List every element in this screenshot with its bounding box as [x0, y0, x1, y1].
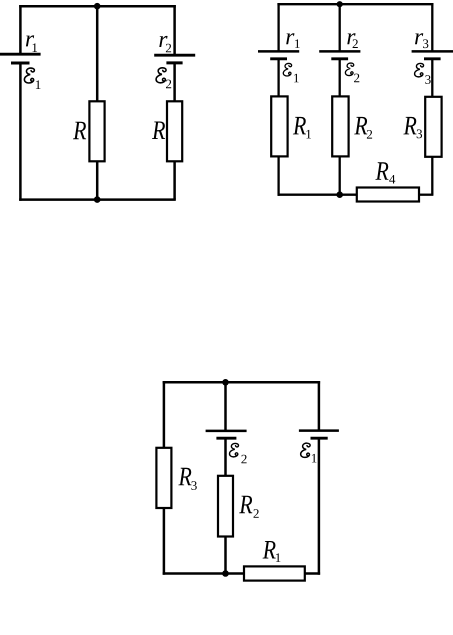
label r1 (circuit 1)	[26, 35, 37, 52]
label R1 (circuit 2)	[293, 117, 311, 139]
wire: circuit 3 bottom left horizontal	[163, 572, 244, 575]
wire: circuit 1 top horizontal	[19, 5, 176, 8]
label R1 (circuit 3)	[263, 541, 281, 562]
battery EMF3 short plate (circuit 2)	[424, 57, 441, 60]
battery EMF1 short plate (circuit 1)	[11, 62, 30, 65]
wire: circuit 1 middle branch lower segment	[96, 161, 99, 199]
wire: circuit 3 middle branch lower segment	[224, 537, 227, 574]
battery EMF1 long plate (circuit 1)	[0, 53, 41, 56]
wire: circuit 3 bottom right horizontal	[305, 572, 320, 575]
battery EMF2 long plate (circuit 2)	[319, 50, 360, 53]
node: circuit 3 top junction	[222, 379, 229, 386]
wire: circuit 1 right branch upper segment	[173, 5, 176, 55]
node: circuit 2 bottom junction	[336, 191, 343, 198]
wire: circuit 2 branch 1 upper segment	[277, 3, 279, 51]
wire: circuit 2 top horizontal	[277, 3, 433, 5]
wire: circuit 2 branch 1 middle segment	[277, 59, 279, 97]
resistor R2 (circuit 2)	[332, 96, 348, 156]
wire: circuit 2 branch 1 lower segment	[277, 156, 279, 195]
wire: circuit 2 bottom left horizontal	[278, 194, 357, 196]
label R4 (circuit 2)	[375, 162, 395, 183]
resistor R middle (circuit 1)	[89, 101, 104, 161]
resistor R1 (circuit 2)	[271, 96, 287, 156]
label EMF2 script E (circuit 1)	[156, 68, 171, 88]
wire: circuit 2 branch 2 middle segment	[339, 59, 341, 97]
label EMF2 script E (circuit 2)	[345, 63, 359, 82]
node: circuit 1 bottom junction	[94, 196, 101, 203]
wire: circuit 3 middle branch upper segment	[224, 382, 227, 431]
wire: circuit 1 bottom horizontal	[19, 198, 176, 201]
label R2 (circuit 2)	[354, 117, 372, 139]
label r2 (circuit 2)	[347, 33, 358, 48]
battery EMF2 short plate (circuit 2)	[331, 57, 348, 60]
label EMF2 script E (circuit 3)	[230, 443, 247, 463]
label EMF1 script E (circuit 2)	[283, 63, 298, 82]
wire: circuit 1 left branch upper segment	[19, 5, 22, 54]
wire: circuit 3 right branch upper segment	[318, 381, 321, 431]
resistor R3 (circuit 2)	[425, 97, 441, 157]
wire: circuit 2 bottom right horizontal	[419, 194, 433, 196]
resistor R2 (circuit 3)	[218, 476, 233, 537]
label EMF3 script E (circuit 2)	[415, 63, 431, 84]
node: circuit 1 top junction	[94, 3, 101, 10]
battery EMF1 short plate (circuit 2)	[270, 57, 287, 60]
battery EMF2 short plate (circuit 1)	[166, 61, 182, 64]
wire: circuit 1 left branch lower segment	[19, 63, 22, 201]
label r3 (circuit 2)	[415, 33, 428, 48]
wire: circuit 1 right branch middle segment	[173, 63, 176, 101]
wire: circuit 3 right branch lower segment	[318, 438, 321, 575]
wire: circuit 1 right branch lower segment	[173, 161, 176, 199]
resistor R4 (circuit 2)	[357, 188, 419, 202]
battery EMF2 long plate (circuit 3)	[206, 430, 247, 433]
battery EMF1 long plate (circuit 2)	[258, 50, 299, 53]
wire: circuit 2 branch 3 upper segment	[431, 3, 433, 51]
wire: circuit 2 branch 3 lower segment	[431, 157, 433, 195]
wire: circuit 2 branch 3 middle segment	[431, 59, 433, 97]
label R3 (circuit 2)	[403, 117, 422, 138]
label R middle (circuit 1)	[73, 122, 86, 140]
battery EMF1 long plate (circuit 3)	[299, 429, 339, 432]
wire: circuit 3 top horizontal	[163, 381, 320, 384]
resistor R3 (circuit 3)	[156, 448, 171, 508]
battery EMF3 long plate (circuit 2)	[412, 50, 453, 53]
wire: circuit 2 branch 2 lower segment	[339, 156, 341, 194]
label EMF1 script E (circuit 3)	[301, 443, 317, 462]
node: circuit 2 top junction	[337, 1, 343, 7]
label R right (circuit 1)	[152, 121, 165, 139]
label r2 (circuit 1)	[159, 36, 171, 52]
label EMF1 script E (circuit 1)	[24, 68, 40, 89]
wire: circuit 2 branch 2 upper segment	[339, 4, 341, 51]
wire: circuit 1 middle branch upper segment	[96, 6, 99, 101]
label R3 (circuit 3)	[178, 468, 196, 490]
wire: circuit 3 middle branch middle segment	[224, 438, 227, 476]
resistor R1 (circuit 3)	[244, 566, 305, 580]
label R2 (circuit 3)	[239, 496, 259, 518]
wire: circuit 3 left branch lower segment	[163, 508, 166, 575]
battery EMF1 short plate (circuit 3)	[311, 437, 328, 440]
resistor R right (circuit 1)	[167, 101, 182, 161]
battery EMF2 long plate (circuit 1)	[154, 54, 195, 57]
wire: circuit 3 left branch upper segment	[163, 381, 166, 448]
battery EMF2 short plate (circuit 3)	[216, 437, 236, 440]
node: circuit 3 bottom junction	[222, 570, 229, 577]
label r1 (circuit 2)	[286, 33, 299, 48]
